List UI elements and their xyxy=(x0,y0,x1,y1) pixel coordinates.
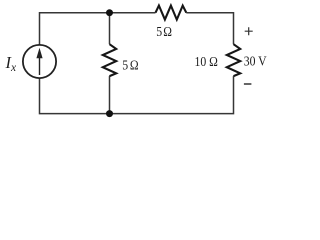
svg-text:30 V: 30 V xyxy=(244,53,268,69)
svg-text:Ω: Ω xyxy=(163,23,172,39)
svg-text:5: 5 xyxy=(122,57,128,73)
svg-text:Ω: Ω xyxy=(130,57,139,73)
svg-text:Ix: Ix xyxy=(5,53,18,74)
svg-text:5: 5 xyxy=(156,23,162,39)
svg-text:10 Ω: 10 Ω xyxy=(195,53,218,69)
